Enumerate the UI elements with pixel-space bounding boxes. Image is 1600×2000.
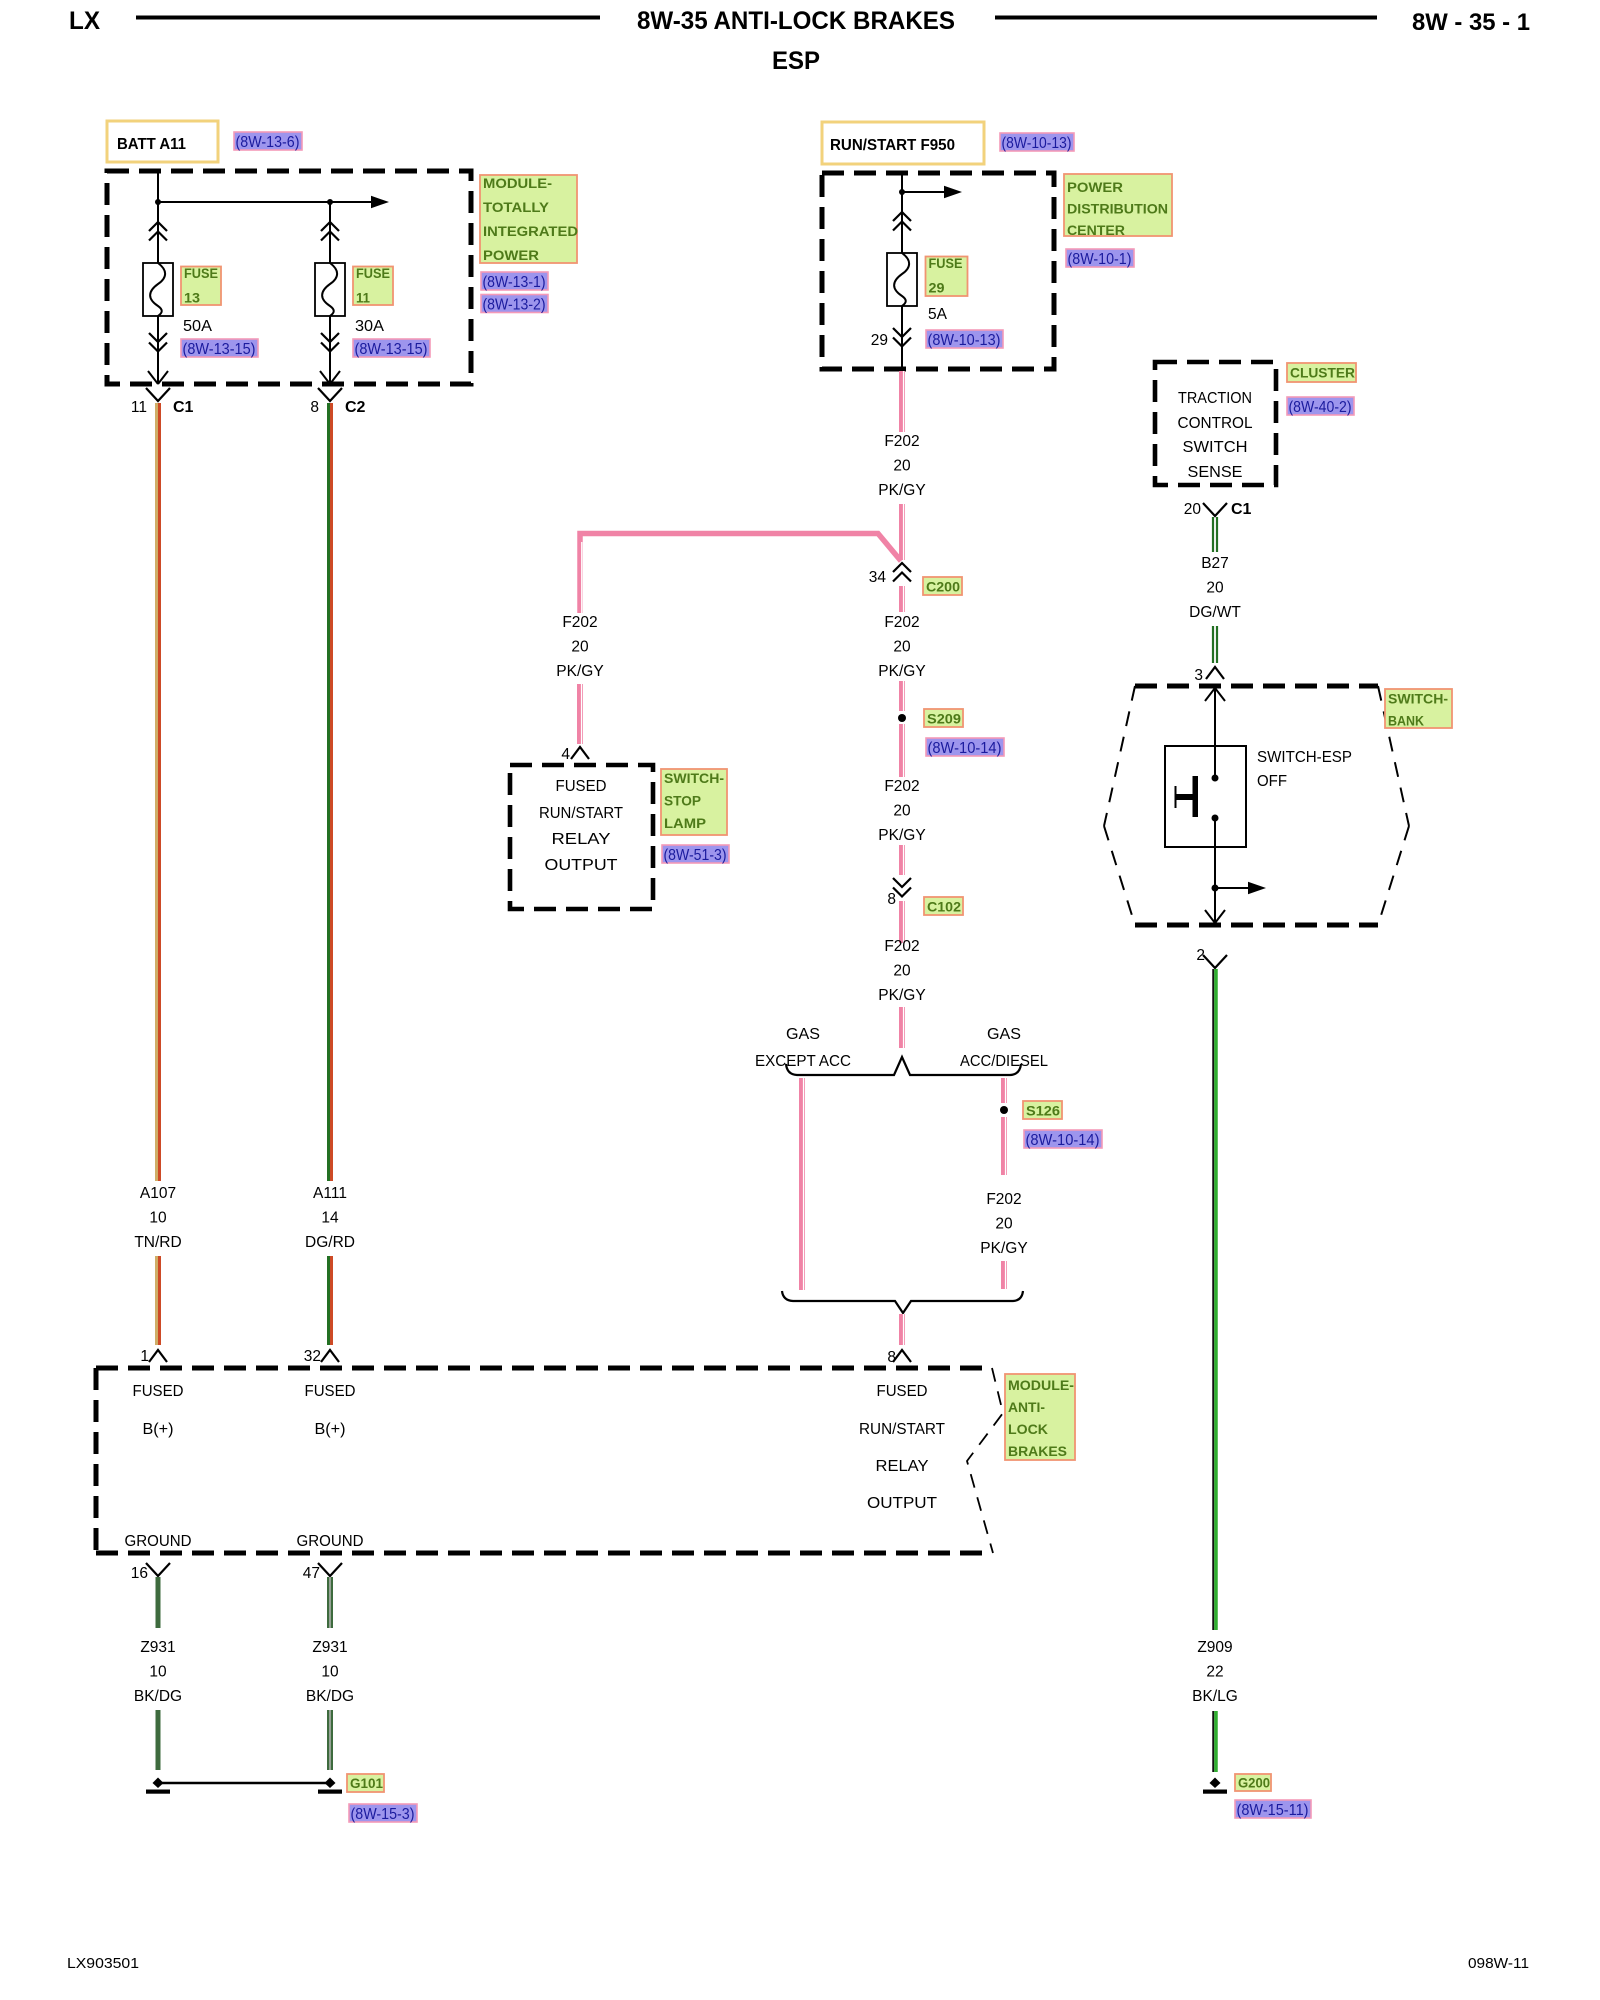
ref (8W-10-14) — [1024, 1130, 1102, 1148]
svg-text:C200: C200 — [926, 580, 960, 596]
node TRACTION CONTROL SWITCH SENSE dashed box — [1155, 362, 1276, 485]
svg-text:GAS: GAS — [786, 1026, 820, 1043]
wire B27 lower — [1212, 626, 1214, 663]
svg-text:BANK: BANK — [1388, 714, 1425, 730]
green label POWER DISTRIBUTION CENTER — [1064, 174, 1172, 236]
svg-text:BK/LG: BK/LG — [1192, 1688, 1238, 1705]
ground bus G101 — [158, 1782, 330, 1784]
svg-text:20: 20 — [893, 639, 911, 656]
label C200 — [923, 577, 962, 595]
ref (8W-13-1) — [481, 272, 548, 290]
wire F202 seg5 — [899, 724, 905, 777]
svg-text:8W - 35 - 1: 8W - 35 - 1 — [1412, 9, 1530, 36]
fuse F13 — [143, 263, 173, 316]
svg-text:8: 8 — [887, 891, 896, 908]
module ABS dashed box — [96, 1366, 992, 1371]
junction dot — [327, 199, 333, 205]
svg-text:SWITCH-ESP: SWITCH-ESP — [1257, 749, 1352, 766]
svg-text:PK/GY: PK/GY — [878, 987, 925, 1004]
svg-text:(8W-51-3): (8W-51-3) — [664, 847, 727, 864]
svg-text:FUSED: FUSED — [305, 1383, 356, 1400]
svg-text:S209: S209 — [927, 712, 961, 728]
connector C1 pin 11 fork — [146, 388, 170, 401]
connector C1 pin 20 fork — [1203, 503, 1227, 516]
svg-text:DG/RD: DG/RD — [305, 1234, 355, 1251]
header rule right — [995, 16, 1377, 20]
connector pin 8 chevron — [893, 1350, 911, 1362]
junction dot — [155, 199, 161, 205]
svg-text:22: 22 — [1206, 1664, 1223, 1681]
svg-text:FUSE: FUSE — [929, 256, 963, 272]
svg-text:CENTER: CENTER — [1067, 223, 1125, 239]
svg-text:(8W-10-13): (8W-10-13) — [1002, 135, 1072, 152]
wire F202 seg1 — [899, 371, 905, 432]
svg-text:13: 13 — [184, 291, 200, 307]
ref (8W-10-1) — [1066, 249, 1134, 267]
svg-text:C1: C1 — [173, 399, 194, 416]
svg-text:ANTI-: ANTI- — [1008, 1400, 1045, 1416]
connector chevrons down wire B — [321, 333, 339, 352]
svg-text:FUSE: FUSE — [356, 266, 390, 282]
svg-text:20: 20 — [893, 458, 911, 475]
svg-text:DG/WT: DG/WT — [1189, 604, 1241, 621]
wire below F29 — [901, 306, 903, 369]
svg-text:SWITCH: SWITCH — [1183, 439, 1248, 456]
connector chevrons down pin 29 — [893, 328, 911, 347]
svg-text:A111: A111 — [313, 1185, 347, 1202]
wire B27 upper — [1212, 517, 1214, 552]
svg-text:20: 20 — [571, 639, 589, 656]
wire Z931 left lower — [156, 1710, 161, 1770]
svg-text:11: 11 — [356, 291, 370, 307]
svg-text:SWITCH-: SWITCH- — [664, 771, 724, 787]
wire fuse13 top — [329, 202, 331, 263]
wire F202 branch to stop lamp — [580, 534, 901, 614]
wire PDC feed — [901, 173, 903, 253]
wire Z931 mid lower — [327, 1710, 333, 1770]
ground G101 left — [153, 1778, 164, 1789]
svg-text:8: 8 — [310, 399, 319, 416]
ref (8W-10-14) — [926, 738, 1004, 756]
svg-text:RUN/START: RUN/START — [539, 805, 624, 822]
ref (8W-13-6) — [234, 132, 302, 150]
ref (8W-15-11) — [1235, 1800, 1311, 1818]
svg-text:FUSED: FUSED — [133, 1383, 184, 1400]
svg-text:8W-35 ANTI-LOCK BRAKES: 8W-35 ANTI-LOCK BRAKES — [637, 7, 955, 35]
module SWITCH-BANK dashed outline — [1135, 684, 1378, 689]
svg-text:14: 14 — [321, 1210, 339, 1227]
svg-text:10: 10 — [321, 1664, 339, 1681]
green label MODULE-TOTALLY INTEGRATED POWER — [480, 175, 577, 263]
svg-text:C102: C102 — [927, 900, 961, 916]
wire F202 seg4 — [899, 681, 905, 711]
arrow to edge down — [1205, 910, 1225, 923]
svg-text:Z931: Z931 — [140, 1639, 175, 1656]
svg-text:LX903501: LX903501 — [67, 1955, 139, 1972]
wire F202 seg7 — [899, 901, 905, 943]
connector chevrons — [893, 212, 911, 231]
svg-text:(8W-10-1): (8W-10-1) — [1068, 251, 1132, 268]
label S209 — [924, 709, 963, 727]
svg-text:50A: 50A — [183, 318, 213, 335]
ground G200 — [1210, 1778, 1221, 1789]
label CLUSTER — [1287, 363, 1356, 382]
svg-text:(8W-13-15): (8W-13-15) — [183, 341, 256, 358]
wire Z931 mid upper — [327, 1577, 333, 1628]
wire F202 seg8 — [899, 1007, 905, 1048]
svg-text:F202: F202 — [562, 614, 597, 631]
svg-text:GAS: GAS — [987, 1026, 1021, 1043]
wire F202 seg3 — [899, 586, 905, 612]
svg-text:(8W-40-2): (8W-40-2) — [1289, 399, 1352, 416]
svg-text:F202: F202 — [884, 938, 919, 955]
svg-text:Z931: Z931 — [312, 1639, 347, 1656]
wire Z909 lower — [1212, 1711, 1214, 1772]
svg-text:2: 2 — [1196, 947, 1205, 964]
svg-text:BATT A11: BATT A11 — [117, 136, 186, 153]
ref (8W-51-3) — [662, 845, 729, 863]
svg-text:MODULE-: MODULE- — [483, 176, 552, 192]
wire TIPM feed vertical — [157, 171, 159, 263]
svg-text:(8W-10-14): (8W-10-14) — [928, 740, 1002, 757]
splice S126 — [1000, 1106, 1008, 1114]
connector pin 4 chevron — [571, 747, 589, 759]
esp off button icon — [1175, 786, 1177, 808]
green label FUSE 11 — [353, 267, 393, 306]
svg-text:ACC/DIESEL: ACC/DIESEL — [960, 1053, 1048, 1070]
svg-text:BK/DG: BK/DG — [306, 1688, 354, 1705]
wire switch bottom — [1214, 847, 1216, 924]
svg-text:G101: G101 — [350, 1776, 383, 1792]
connector pin 16 fork — [146, 1563, 170, 1576]
fuse F11 — [315, 263, 345, 316]
junction dot — [1212, 885, 1219, 892]
wire below F11 — [329, 316, 331, 384]
module PDC dashed box — [822, 173, 1054, 369]
svg-text:10: 10 — [149, 1664, 167, 1681]
svg-text:LX: LX — [69, 7, 100, 35]
exit arrow C2 — [320, 371, 340, 384]
junction dot — [899, 189, 905, 195]
exit arrow C1 — [148, 371, 168, 384]
header rule left — [136, 16, 600, 20]
svg-text:20: 20 — [893, 963, 911, 980]
wire A111 upper — [327, 403, 330, 1181]
svg-text:20: 20 — [893, 803, 911, 820]
svg-text:RELAY: RELAY — [876, 1458, 929, 1475]
svg-text:LOCK: LOCK — [1008, 1422, 1049, 1438]
wire A111 lower — [327, 1256, 330, 1345]
splice S209 — [898, 714, 906, 722]
arrow continuation right — [902, 191, 945, 193]
fuse F29 — [887, 253, 917, 306]
wire switch top — [1214, 687, 1216, 746]
ref (8W-13-2) — [481, 295, 548, 313]
svg-text:47: 47 — [303, 1565, 320, 1582]
green label SWITCH-STOP LAMP — [661, 769, 727, 835]
svg-text:F202: F202 — [884, 614, 919, 631]
svg-text:CONTROL: CONTROL — [1178, 415, 1253, 432]
svg-text:20: 20 — [1206, 580, 1224, 597]
svg-text:POWER: POWER — [1067, 180, 1123, 196]
svg-text:PK/GY: PK/GY — [878, 482, 925, 499]
svg-text:GROUND: GROUND — [297, 1533, 364, 1550]
connector pin 32 chevron — [321, 1350, 339, 1362]
wire A107 upper — [155, 403, 158, 1181]
svg-text:(8W-10-13): (8W-10-13) — [928, 332, 1001, 349]
connector pin 2 fork — [1203, 955, 1227, 968]
wire gas-acc-diesel branch middle — [1001, 1117, 1007, 1175]
connector pin 1 chevron — [149, 1350, 167, 1362]
node RUN/START F950 — [822, 122, 984, 164]
svg-text:OFF: OFF — [1257, 773, 1287, 790]
svg-text:29: 29 — [871, 332, 888, 349]
svg-text:ESP: ESP — [772, 47, 820, 75]
svg-text:(8W-13-15): (8W-13-15) — [355, 341, 428, 358]
connector chevrons wire A — [149, 222, 167, 241]
arrow continuation right — [1215, 887, 1248, 889]
ground G101 mid — [325, 1778, 336, 1789]
svg-text:DISTRIBUTION: DISTRIBUTION — [1067, 202, 1168, 218]
svg-text:C2: C2 — [345, 399, 366, 416]
svg-text:GROUND: GROUND — [125, 1533, 192, 1550]
wire F202 seg6 — [899, 845, 905, 875]
wire F202 seg2 — [899, 504, 905, 560]
arrow continuation right — [371, 196, 389, 208]
svg-text:BRAKES: BRAKES — [1008, 1444, 1067, 1460]
svg-text:STOP: STOP — [664, 794, 701, 810]
svg-text:MODULE-: MODULE- — [1008, 1378, 1074, 1394]
svg-text:TRACTION: TRACTION — [1178, 390, 1252, 407]
connector C2 pin 8 fork — [318, 388, 342, 401]
ref (8W-15-3) — [349, 1804, 417, 1822]
split brace bottom — [782, 1291, 1023, 1313]
svg-text:4: 4 — [561, 746, 570, 763]
wire F202 to module — [899, 1314, 905, 1345]
label G101 — [347, 1774, 384, 1792]
svg-text:RUN/START: RUN/START — [859, 1421, 946, 1438]
svg-text:TN/RD: TN/RD — [134, 1234, 181, 1251]
svg-text:RELAY: RELAY — [552, 831, 611, 848]
svg-text:(8W-13-6): (8W-13-6) — [236, 134, 300, 151]
svg-text:(8W-15-3): (8W-15-3) — [351, 1806, 415, 1823]
svg-text:SWITCH-: SWITCH- — [1388, 692, 1448, 708]
label C102 — [924, 897, 963, 915]
connector chevrons wire B — [321, 222, 339, 241]
svg-text:TOTALLY: TOTALLY — [483, 200, 550, 216]
svg-text:16: 16 — [131, 1565, 148, 1582]
svg-text:FUSED: FUSED — [556, 778, 607, 795]
svg-text:32: 32 — [304, 1348, 321, 1365]
svg-text:F202: F202 — [986, 1191, 1021, 1208]
wire below F13 — [157, 316, 159, 384]
svg-text:11: 11 — [131, 399, 147, 416]
green label SWITCH-BANK — [1385, 689, 1452, 728]
svg-text:SENSE: SENSE — [1188, 464, 1243, 481]
svg-text:G200: G200 — [1238, 1776, 1270, 1792]
svg-text:PK/GY: PK/GY — [878, 827, 925, 844]
svg-text:PK/GY: PK/GY — [556, 663, 603, 680]
wire gas-acc-diesel branch lower — [1001, 1261, 1007, 1289]
svg-text:PK/GY: PK/GY — [980, 1240, 1027, 1257]
svg-text:C1: C1 — [1231, 501, 1252, 518]
svg-text:5A: 5A — [928, 306, 948, 323]
wire Z931 left upper — [156, 1577, 161, 1628]
svg-text:LAMP: LAMP — [664, 816, 706, 832]
label G200 — [1235, 1774, 1271, 1791]
svg-text:POWER: POWER — [483, 248, 539, 264]
green label MODULE-ANTI-LOCK BRAKES — [1005, 1374, 1075, 1460]
wire Z909 upper — [1212, 969, 1214, 1630]
svg-text:A107: A107 — [140, 1185, 176, 1202]
svg-text:10: 10 — [149, 1210, 167, 1227]
svg-text:Z909: Z909 — [1197, 1639, 1232, 1656]
ref (8W-13-15) — [353, 339, 430, 357]
connector C200 chevrons pin 34 — [893, 563, 911, 582]
svg-text:098W-11: 098W-11 — [1468, 1955, 1529, 1972]
svg-text:(8W-13-1): (8W-13-1) — [483, 274, 546, 291]
svg-text:EXCEPT ACC: EXCEPT ACC — [755, 1053, 851, 1070]
module U1 TIPM dashed box — [107, 171, 471, 384]
svg-text:OUTPUT: OUTPUT — [545, 857, 619, 874]
svg-text:BK/DG: BK/DG — [134, 1688, 182, 1705]
ref (8W-10-13) — [926, 330, 1003, 348]
svg-text:OUTPUT: OUTPUT — [867, 1495, 938, 1512]
svg-text:F202: F202 — [884, 778, 919, 795]
wire gas-acc-diesel branch upper — [1001, 1078, 1007, 1103]
svg-text:(8W-10-14): (8W-10-14) — [1026, 1132, 1100, 1149]
wire gas-except-acc branch — [799, 1078, 805, 1290]
svg-text:B(+): B(+) — [143, 1421, 174, 1438]
ref (8W-13-15) — [181, 339, 258, 357]
node FUSED RUN/START RELAY OUTPUT dashed box — [510, 765, 653, 909]
svg-text:34: 34 — [869, 569, 887, 586]
green label FUSE 13 — [181, 267, 221, 306]
svg-text:B(+): B(+) — [315, 1421, 346, 1438]
connector C102 chevrons pin 8 — [893, 878, 911, 897]
svg-text:B27: B27 — [1201, 555, 1229, 572]
svg-text:29: 29 — [929, 281, 945, 297]
connector chevrons down wire A — [149, 333, 167, 352]
green label FUSE 29 — [926, 257, 968, 297]
svg-text:FUSE: FUSE — [184, 266, 218, 282]
wire switch inside — [1214, 746, 1216, 778]
svg-text:RUN/START F950: RUN/START F950 — [830, 137, 955, 154]
svg-text:INTEGRATED: INTEGRATED — [483, 224, 578, 240]
switch S1 box — [1165, 746, 1246, 847]
svg-text:30A: 30A — [355, 318, 385, 335]
wire TIPM branch horizontal — [158, 201, 372, 203]
svg-text:3: 3 — [1194, 667, 1203, 684]
connector pin 3 chevron — [1206, 667, 1224, 679]
node BATT A11 — [107, 121, 218, 162]
connector pin 47 fork — [318, 1563, 342, 1576]
wire A107 lower — [155, 1256, 158, 1345]
svg-text:FUSED: FUSED — [877, 1383, 928, 1400]
ref (8W-10-13) — [1000, 133, 1074, 151]
svg-text:1: 1 — [140, 1348, 149, 1365]
svg-text:20: 20 — [995, 1216, 1013, 1233]
switch contact dots — [1212, 775, 1219, 782]
ref (8W-40-2) — [1287, 397, 1354, 415]
label S126 — [1023, 1101, 1062, 1119]
svg-text:F202: F202 — [884, 433, 919, 450]
svg-text:8: 8 — [887, 1349, 896, 1366]
svg-text:S126: S126 — [1026, 1104, 1060, 1120]
svg-text:(8W-15-11): (8W-15-11) — [1237, 1802, 1309, 1819]
svg-text:(8W-13-2): (8W-13-2) — [483, 296, 546, 313]
split brace top — [786, 1057, 1021, 1075]
svg-text:PK/GY: PK/GY — [878, 663, 925, 680]
svg-text:CLUSTER: CLUSTER — [1290, 366, 1355, 382]
svg-text:20: 20 — [1184, 501, 1202, 518]
wire branch lower — [577, 684, 583, 744]
arrow into switch bank — [1205, 688, 1225, 701]
